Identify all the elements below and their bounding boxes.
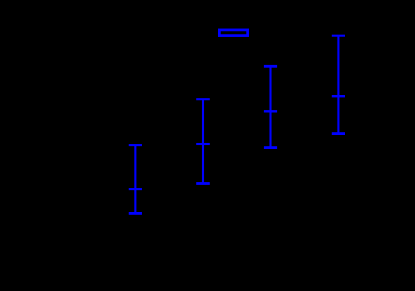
errorbar 3 [264,66,277,147]
legend handle rectangle [219,30,247,36]
errorbar 4 [332,36,345,134]
errorbar 1 [129,145,142,213]
errorbar 2 [196,99,210,183]
